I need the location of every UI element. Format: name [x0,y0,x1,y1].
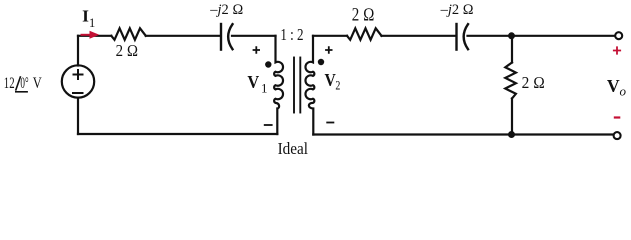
svg-text:1: 1 [261,81,268,96]
svg-text:12: 12 [4,75,15,92]
label V2 plus sign [325,46,332,53]
wire shunt resistor bottom lead [511,99,513,135]
svg-text:V: V [247,72,259,92]
svg-text:0°: 0° [20,75,28,92]
wire source top lead [77,36,79,66]
junction node dot bottom [508,131,515,138]
source minus sign [73,92,83,94]
output minus sign red [614,116,621,118]
capacitor C2 -j2ohm left plate [455,24,457,50]
wire secondary top to resistor [313,35,347,37]
transformer secondary polarity dot [318,59,324,65]
source plus sign [74,70,83,79]
svg-text:–j2 Ω: –j2 Ω [440,2,474,18]
junction node dot top [508,32,515,39]
current I1 arrow [81,31,100,39]
svg-text:V: V [33,75,42,92]
label V2 minus sign [326,122,334,124]
wire capacitor C1 to primary corner [232,35,276,37]
svg-text:1: 1 [89,16,95,30]
svg-text:V: V [325,70,337,90]
transformer core line right [299,58,301,113]
svg-text:–j2 Ω: –j2 Ω [209,2,243,18]
transformer secondary winding L2 [305,36,314,135]
svg-text:I: I [82,6,89,25]
svg-text:2: 2 [335,77,340,92]
capacitor C1 -j2ohm left plate [220,24,222,50]
wire top-left from source to resistor [78,35,111,37]
wire resistor to capacitor C1 [146,35,220,37]
svg-text:Ideal: Ideal [278,139,309,158]
output terminal top circle [615,32,622,39]
svg-text:2 Ω: 2 Ω [116,41,139,60]
wire shunt resistor top lead [511,36,513,63]
voltage source VS circle [62,65,94,97]
transformer primary winding L1 [274,36,283,134]
svg-text:2 Ω: 2 Ω [522,73,545,92]
capacitor C2 -j2ohm curved plate [464,24,468,49]
svg-text:1 : 2: 1 : 2 [280,25,303,44]
output terminal bottom circle [614,132,621,139]
angle notation underline [15,91,28,93]
resistor R 2ohm secondary zigzag [347,28,382,40]
wire bottom secondary to output terminal [313,133,613,135]
capacitor C1 -j2ohm curved plate [228,24,232,49]
transformer core line left [293,58,295,113]
wire capacitor C2 to output terminal [468,35,615,37]
svg-text:2 Ω: 2 Ω [352,6,375,26]
svg-text:o: o [620,84,627,99]
angle slash of phasor notation [16,76,21,90]
wire resistor to capacitor C2 [382,35,456,37]
transformer primary polarity dot [265,61,271,67]
svg-text:V: V [607,76,620,96]
wire bottom primary loop [78,133,277,135]
wire source bottom lead [77,98,79,134]
resistor R 2ohm primary zigzag [111,28,146,40]
label V1 plus sign [253,46,260,53]
output plus sign red [613,46,621,54]
resistor R 2ohm shunt vertical zigzag [505,63,516,99]
label V1 minus sign [264,124,273,126]
